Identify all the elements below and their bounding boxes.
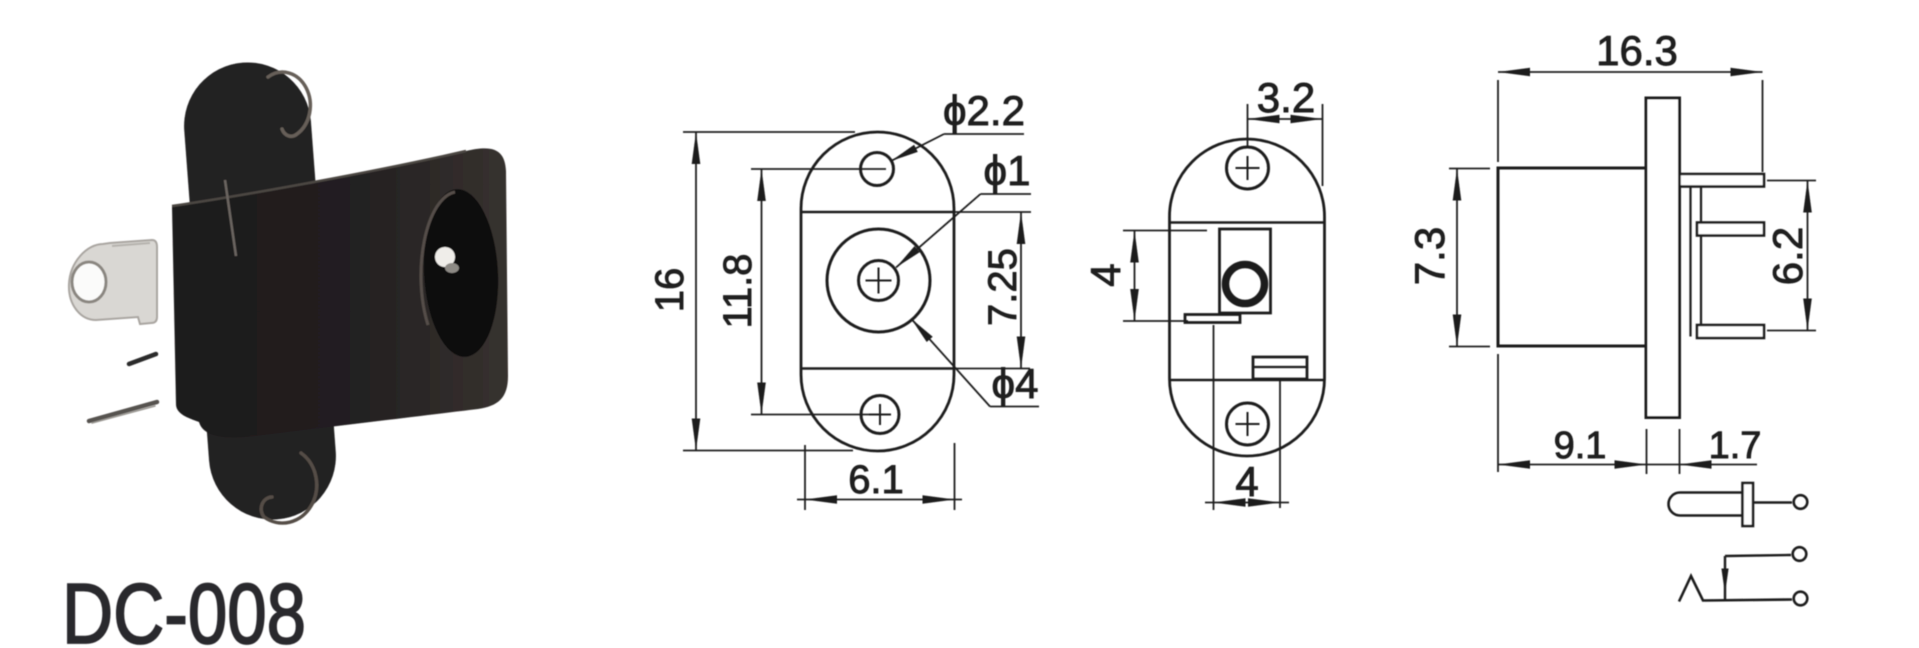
dimension 11.8 (hole spacing) bbox=[716, 169, 886, 415]
jack symbol (switched sleeve) bbox=[1679, 547, 1807, 605]
rear centre pin ring bbox=[1226, 265, 1265, 304]
svg-text:DC-008: DC-008 bbox=[62, 567, 306, 648]
rear view outline (stadium flange) bbox=[1170, 139, 1325, 456]
dimension 4 (left) bbox=[1082, 231, 1207, 322]
label phi4 with leader bbox=[911, 319, 1039, 408]
front view barrel circle (phi4) bbox=[827, 229, 930, 332]
top pin bbox=[1680, 174, 1765, 187]
svg-text:ϕ1: ϕ1 bbox=[984, 147, 1031, 194]
dimension 6.2 bbox=[1764, 181, 1816, 331]
middle pin bbox=[1697, 223, 1764, 236]
svg-text:16: 16 bbox=[648, 268, 692, 313]
dimension 7.25 (body height) bbox=[954, 212, 1031, 369]
label phi1 with leader bbox=[896, 147, 1031, 268]
front view bottom mounting hole bbox=[861, 396, 899, 434]
rear housing lines bbox=[1689, 176, 1691, 337]
svg-text:1.7: 1.7 bbox=[1709, 425, 1762, 467]
front view pin circle (phi1) bbox=[859, 261, 899, 301]
front view top mounting hole bbox=[861, 153, 894, 186]
svg-text:11.8: 11.8 bbox=[716, 254, 760, 329]
rear right terminal tab bbox=[1253, 357, 1307, 379]
svg-text:7.25: 7.25 bbox=[981, 248, 1025, 326]
dimension 6.1 (body width) bbox=[797, 443, 962, 510]
rear left terminal tab bbox=[1185, 315, 1240, 323]
svg-text:ϕ2.2: ϕ2.2 bbox=[943, 87, 1025, 134]
label phi2.2 with leader bbox=[891, 87, 1025, 161]
side view body bbox=[1498, 168, 1646, 346]
dimension 16.3 bbox=[1498, 27, 1763, 172]
rear view body edge lines bbox=[1170, 221, 1325, 223]
side view flange bbox=[1646, 98, 1680, 418]
svg-text:3.2: 3.2 bbox=[1257, 74, 1315, 121]
rear bottom screw hole bbox=[1227, 403, 1269, 445]
dimensions 9.1 and 1.7 bbox=[1498, 354, 1761, 474]
bottom pin bbox=[1697, 325, 1764, 338]
dimension 7.3 bbox=[1406, 169, 1490, 347]
front view body edge lines bbox=[801, 211, 954, 213]
svg-text:6.2: 6.2 bbox=[1764, 227, 1811, 285]
photo: DC-008 jack photograph bbox=[69, 58, 508, 524]
svg-text:9.1: 9.1 bbox=[1554, 425, 1607, 467]
front view outline (stadium flange) bbox=[801, 132, 954, 451]
dimension 4 (bottom) bbox=[1205, 325, 1289, 510]
svg-text:4: 4 bbox=[1082, 263, 1129, 286]
dimension 16 (overall height) bbox=[648, 132, 855, 451]
svg-text:ϕ4: ϕ4 bbox=[992, 360, 1039, 407]
centre cross bbox=[866, 280, 892, 282]
rear centre terminal housing bbox=[1220, 229, 1271, 313]
svg-text:4: 4 bbox=[1235, 458, 1258, 505]
dimension 3.2 bbox=[1248, 74, 1323, 186]
svg-text:16.3: 16.3 bbox=[1596, 27, 1678, 74]
svg-text:6.1: 6.1 bbox=[848, 458, 904, 502]
plug symbol (barrel) bbox=[1669, 483, 1808, 526]
rear top screw hole bbox=[1227, 147, 1269, 189]
svg-text:7.3: 7.3 bbox=[1406, 227, 1453, 285]
